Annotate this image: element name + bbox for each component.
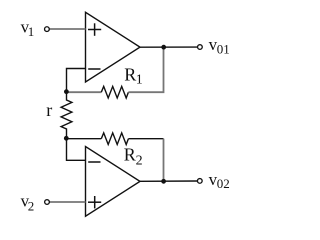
terminal v1	[45, 27, 50, 32]
wire node B to U2 minus input	[67, 138, 86, 160]
terminal v02	[197, 179, 202, 184]
svg-text:2: 2	[136, 154, 143, 169]
wire resistor R1 to output node of U1	[128, 47, 163, 92]
resistor r	[61, 92, 72, 139]
op-amp U1 minus input marking	[88, 68, 100, 70]
svg-text:R: R	[124, 65, 136, 85]
svg-text:1: 1	[136, 73, 143, 88]
wire U1 minus input to node A	[67, 69, 86, 92]
junction node B (U2 minus net / r bottom)	[64, 136, 69, 141]
wire node B to resistor R2	[66, 138, 101, 140]
op-amp U1 plus input marking	[88, 23, 101, 36]
wire v1 terminal to U1 plus input	[49, 28, 85, 30]
svg-text:r: r	[46, 100, 52, 120]
svg-text:02: 02	[217, 176, 230, 191]
wire U2 output to terminal v02	[140, 180, 198, 182]
resistor R1	[101, 86, 128, 98]
svg-text:R: R	[124, 145, 136, 165]
junction node A (U1 minus net / r top)	[64, 89, 69, 94]
wire resistor R2 to output node of U2 (horizontal)	[128, 138, 163, 140]
svg-text:1: 1	[28, 24, 35, 39]
wire U1 output to terminal v01	[140, 46, 197, 48]
op-amp U2 minus input marking	[88, 161, 100, 163]
svg-text:2: 2	[28, 198, 35, 213]
terminal v01	[198, 45, 203, 50]
svg-text:01: 01	[217, 42, 230, 57]
terminal v2	[45, 200, 50, 205]
op-amp U2 triangle	[86, 147, 141, 217]
resistor R2	[101, 133, 128, 145]
op-amp U1 triangle	[86, 12, 141, 82]
wire v2 terminal to U2 plus input	[49, 201, 85, 203]
wire feedback vertical to output node of U2	[163, 139, 165, 182]
junction U2 output node	[161, 179, 166, 184]
op-amp U2 plus input marking	[88, 196, 101, 208]
wire node A to resistor R1	[66, 91, 101, 93]
junction U1 output node	[161, 45, 166, 50]
